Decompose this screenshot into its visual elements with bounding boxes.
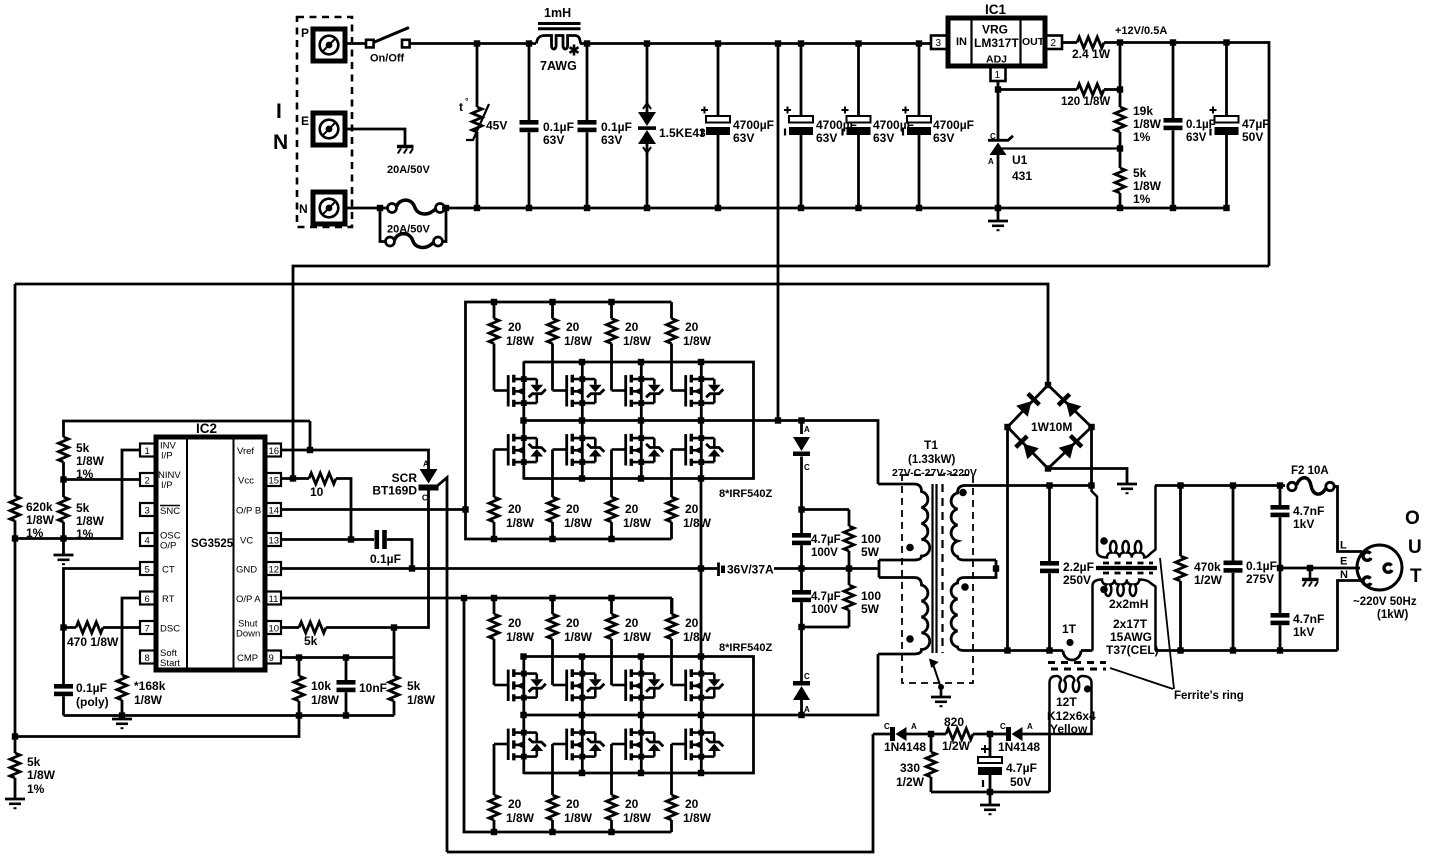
- pin 6 RT: [140, 592, 175, 606]
- phase dot primary bottom: [906, 635, 914, 643]
- fuse F2 10A: [1288, 478, 1334, 494]
- svg-text:1T: 1T: [1062, 622, 1077, 636]
- wire lower return to left rail: [15, 716, 299, 737]
- bridge frame: [1008, 385, 1092, 469]
- svg-text:F2 10A: F2 10A: [1291, 465, 1329, 477]
- svg-text:9: 9: [269, 653, 274, 664]
- input connector dashed box: [297, 17, 352, 227]
- svg-text:20: 20: [685, 502, 699, 516]
- svg-text:8*IRF540Z: 8*IRF540Z: [719, 488, 772, 500]
- bottom rail of input filter: [446, 207, 1227, 210]
- svg-text:431: 431: [1012, 169, 1032, 183]
- resistor 100 5W (2): [848, 569, 851, 586]
- node NINV divider: [60, 476, 66, 482]
- svg-text:1/8W: 1/8W: [407, 693, 436, 707]
- svg-text:3: 3: [936, 38, 942, 49]
- wire top gate bus: [466, 302, 672, 510]
- svg-text:RT: RT: [162, 594, 175, 605]
- node +36V riser top: [775, 40, 781, 46]
- resistor 20 1/8W g11: [607, 598, 652, 685]
- node gate bus2 c1: [491, 536, 497, 542]
- pin 3 box: [931, 36, 947, 50]
- nodes middle bus: [520, 712, 526, 718]
- svg-text:T1: T1: [924, 438, 938, 452]
- svg-text:63V: 63V: [733, 131, 754, 145]
- fuse F1b bypass wires: [380, 208, 446, 242]
- svg-text:6: 6: [145, 594, 150, 605]
- svg-text:CT: CT: [162, 565, 175, 576]
- svg-text:BT169D: BT169D: [372, 484, 417, 498]
- svg-text:0.1µF: 0.1µF: [601, 120, 632, 134]
- wire ground bus under IC2: [64, 714, 395, 717]
- svg-text:CMP: CMP: [237, 653, 258, 664]
- pin 9 CMP: [237, 651, 281, 665]
- pin 3 SNC: [140, 503, 180, 517]
- svg-text:4.7nF: 4.7nF: [1293, 612, 1324, 626]
- wire O/P A gate bus corner: [671, 598, 674, 614]
- svg-text:O: O: [1405, 508, 1420, 529]
- svg-text:C: C: [804, 463, 810, 472]
- ground below 5k: [62, 539, 65, 556]
- resistor 20 1/8W g14: [548, 744, 593, 832]
- svg-text:330: 330: [900, 761, 920, 775]
- svg-text:VRG: VRG: [982, 23, 1008, 37]
- svg-text:1/2W: 1/2W: [1194, 573, 1223, 587]
- node TVS top: [644, 40, 650, 46]
- ground bottom left: [5, 799, 25, 808]
- capacitor C2 0.1uF 63V: [586, 44, 589, 121]
- svg-text:63V: 63V: [543, 133, 564, 147]
- svg-text:1/8W: 1/8W: [76, 514, 105, 528]
- svg-text:1: 1: [145, 446, 150, 457]
- resistor 20 1/8W g16: [667, 744, 712, 832]
- svg-text:O/P: O/P: [160, 541, 176, 552]
- choke bottom winding: [1093, 580, 1156, 651]
- wire +12V feed (line A): [293, 266, 1269, 479]
- resistor 2.4 1W: [1077, 37, 1104, 48]
- wire bridge left to AC neutral: [1006, 427, 1009, 651]
- resistor 100 5W (1): [848, 510, 851, 527]
- svg-text:GND: GND: [236, 565, 257, 576]
- transistor Q14: [553, 715, 605, 774]
- node gate bus c3: [608, 595, 614, 601]
- node gate bus2 c3: [608, 536, 614, 542]
- svg-text:20: 20: [625, 502, 639, 516]
- svg-text:5k: 5k: [76, 441, 90, 455]
- svg-text:100V: 100V: [811, 547, 838, 559]
- svg-text:N: N: [1340, 569, 1348, 581]
- T1 secondary winding top: [951, 486, 1091, 561]
- wire drain bus top: [524, 362, 754, 479]
- svg-text:Vref: Vref: [237, 446, 254, 457]
- svg-text:63V: 63V: [933, 131, 954, 145]
- choke top winding: [1092, 486, 1156, 558]
- SCR BT169D: [420, 469, 438, 484]
- svg-text:P: P: [301, 26, 309, 40]
- svg-text:20: 20: [508, 320, 522, 334]
- transistor Q1: [494, 362, 546, 421]
- svg-text:1/8W: 1/8W: [564, 516, 593, 530]
- ground below U1: [997, 208, 1000, 221]
- resistor 20 1/8W g7: [607, 450, 652, 540]
- svg-text:Start: Start: [160, 658, 180, 669]
- svg-text:4.7nF: 4.7nF: [1293, 504, 1324, 518]
- svg-text:DSC: DSC: [160, 624, 180, 635]
- svg-text:2x17T: 2x17T: [1113, 617, 1148, 631]
- node VC cap to GND: [409, 565, 415, 571]
- svg-text:C: C: [990, 132, 996, 141]
- capacitor C6 4700uF 63V: [918, 44, 921, 117]
- svg-text:2: 2: [1051, 38, 1057, 49]
- svg-text:5k: 5k: [27, 755, 41, 769]
- capacitor C4 4700uF 63V: [800, 44, 803, 117]
- svg-text:(1.33kW): (1.33kW): [908, 454, 955, 466]
- svg-text:20: 20: [625, 797, 639, 811]
- pin 16 Vref: [237, 444, 281, 458]
- node shutdown junction: [391, 624, 397, 630]
- node gate bus c1: [491, 299, 497, 305]
- wire screen to ground: [940, 687, 943, 697]
- svg-text:5: 5: [145, 565, 150, 576]
- svg-text:20: 20: [625, 616, 639, 630]
- capacitor 0.1uF (VC): [375, 530, 380, 549]
- wire RC2 bottom: [802, 626, 850, 629]
- node 4.7nF top: [1277, 482, 1283, 488]
- phase dot choke top: [1100, 537, 1108, 545]
- svg-text:1/8W: 1/8W: [564, 630, 593, 644]
- svg-text:1/8W: 1/8W: [311, 693, 340, 707]
- terminal P: [313, 29, 345, 61]
- ground aux: [989, 792, 992, 805]
- resistor 120 1/8W: [1077, 84, 1104, 95]
- node AC line choke tap: [1088, 482, 1094, 488]
- capacitor 10nF: [345, 658, 348, 681]
- node gate bus2 c3: [608, 829, 614, 835]
- svg-text:4700µF: 4700µF: [933, 118, 974, 132]
- svg-text:4.7µF: 4.7µF: [811, 591, 841, 603]
- resistor 20 1/8W g15: [607, 744, 652, 832]
- svg-text:OUT: OUT: [1022, 36, 1045, 48]
- svg-text:50V: 50V: [1242, 130, 1263, 144]
- svg-text:C: C: [804, 672, 810, 681]
- svg-text:*168k: *168k: [134, 679, 166, 693]
- bridge diode top-right: [1057, 393, 1082, 418]
- IC2 box: [156, 421, 265, 670]
- svg-text:ADJ: ADJ: [986, 54, 1007, 66]
- node snubber bottom: [798, 712, 804, 718]
- phase dot choke bottom: [1100, 586, 1108, 594]
- svg-text:IC1: IC1: [985, 2, 1007, 17]
- svg-text:20: 20: [566, 502, 580, 516]
- IC1 box: [948, 2, 1045, 66]
- wire Vref to SCR anode: [310, 450, 429, 469]
- pin 1 box: [991, 67, 1006, 81]
- wire RC1 top: [802, 508, 850, 511]
- svg-text:1/2W: 1/2W: [896, 775, 925, 789]
- svg-text:12T: 12T: [1056, 695, 1077, 709]
- node left rail bottom: [12, 733, 18, 739]
- wire left gate vertical: [464, 598, 672, 832]
- ground bridge: [1117, 484, 1137, 493]
- node ADJ: [995, 86, 1001, 92]
- svg-text:20A/50V: 20A/50V: [387, 224, 430, 236]
- pin 15 Vcc: [238, 473, 281, 487]
- node E mid: [1277, 565, 1283, 571]
- svg-text:SG3525: SG3525: [191, 538, 234, 550]
- wire to pin 2: [64, 478, 141, 481]
- fuse F1 20A/50V: [388, 200, 445, 214]
- svg-text:°: °: [465, 96, 469, 106]
- node 330 top: [928, 731, 934, 737]
- fuse F1b 20A/50V: [386, 234, 443, 248]
- wire fuse to L: [1334, 487, 1362, 552]
- node AC neutral bridge: [1004, 647, 1010, 653]
- node O/P A to bank: [461, 595, 467, 601]
- resistor 20 1/8W g9: [489, 598, 535, 685]
- wire bridge bottom to ground: [1048, 469, 1127, 485]
- capacitor 0.1uF poly: [62, 628, 65, 685]
- node gate bus2 c2: [549, 536, 555, 542]
- T1 core: [933, 484, 937, 653]
- wire pin9 CMP: [281, 656, 394, 659]
- svg-text:1.5KE43: 1.5KE43: [659, 126, 706, 140]
- svg-text:1mH: 1mH: [544, 6, 571, 20]
- resistor 5k 1/8W 1% (lower): [62, 480, 65, 498]
- node 10k bottom riser: [296, 712, 302, 718]
- svg-text:K12x6x4: K12x6x4: [1047, 709, 1096, 723]
- svg-text:IC2: IC2: [196, 421, 217, 436]
- svg-text:63V: 63V: [873, 131, 894, 145]
- node bridge bottom: [1045, 465, 1051, 471]
- node Vref: [307, 447, 313, 453]
- pin 5 CT: [140, 562, 175, 576]
- resistor 20 1/8W g12: [667, 598, 712, 685]
- wire middle bus: [524, 421, 879, 485]
- svg-text:1/8W: 1/8W: [683, 630, 712, 644]
- capacitor C5 4700uF 63V: [857, 44, 860, 117]
- wire neutral rail after choke: [1155, 649, 1338, 652]
- node fuse left: [377, 205, 383, 211]
- nodes drain bus: [579, 359, 585, 365]
- svg-text:4: 4: [145, 536, 150, 547]
- wire pin12 GND long to battery: [281, 567, 717, 570]
- resistor 330 1/2W: [930, 734, 933, 752]
- bridge diode top-left: [1016, 392, 1041, 417]
- pin 12 GND: [236, 562, 281, 576]
- svg-text:IN: IN: [956, 36, 967, 48]
- pin 4 OSC O/P: [140, 531, 181, 552]
- svg-text:0.1µF: 0.1µF: [1246, 559, 1277, 573]
- node 470k top: [1177, 482, 1183, 488]
- svg-text:1%: 1%: [27, 782, 45, 796]
- capacitor 0.1uF 63V (12V rail): [1172, 43, 1175, 119]
- svg-text:7: 7: [145, 624, 150, 635]
- wire fuse1 to rail: [442, 207, 446, 210]
- svg-text:1/8W: 1/8W: [506, 516, 535, 530]
- resistor 20 1/8W g4: [667, 302, 712, 391]
- svg-text:2: 2: [145, 476, 150, 487]
- resistor 20 1/8W g10: [548, 598, 593, 685]
- svg-text:20: 20: [685, 320, 699, 334]
- battery 36V/37A: [717, 563, 720, 577]
- node C4 top: [798, 40, 804, 46]
- diode D1 (snubber top): [800, 421, 803, 435]
- transistor Q2: [553, 362, 605, 421]
- svg-text:7AWG: 7AWG: [540, 59, 577, 73]
- wire INV feedback rail: [15, 450, 140, 539]
- svg-text:3: 3: [145, 506, 150, 517]
- node gate bus c2: [549, 299, 555, 305]
- svg-text:A: A: [911, 722, 917, 731]
- svg-text:47µF: 47µF: [1242, 117, 1270, 131]
- nodes drain bus: [520, 653, 526, 659]
- resistor *168k 1/8W: [117, 675, 127, 700]
- svg-text:20: 20: [508, 797, 522, 811]
- node gate bus c2: [549, 595, 555, 601]
- svg-text:1/8W: 1/8W: [683, 811, 712, 825]
- node AC line 2.2uF: [1046, 482, 1052, 488]
- terminal E: [313, 113, 345, 145]
- TVS 1.5KE43: [646, 44, 649, 113]
- node CMP 10nF: [343, 654, 349, 660]
- node CT/DSC: [60, 624, 66, 630]
- svg-text:20A/50V: 20A/50V: [387, 164, 430, 176]
- resistor 5k (shutdown): [299, 622, 326, 633]
- transistor Q8: [672, 421, 724, 480]
- phase dot 12T: [1084, 685, 1091, 692]
- svg-text:VC: VC: [240, 536, 253, 547]
- svg-text:LM317T: LM317T: [974, 36, 1019, 50]
- svg-text:(1kW): (1kW): [1377, 609, 1408, 621]
- wire inductor to IC1: [580, 42, 931, 45]
- resistor 20 1/8W g8: [667, 450, 712, 540]
- transistor Q11: [612, 656, 664, 715]
- svg-text:4.7µF: 4.7µF: [811, 534, 841, 546]
- svg-text:A: A: [1027, 722, 1033, 731]
- wire ADJ to R120: [998, 88, 1077, 91]
- svg-text:5k: 5k: [1133, 166, 1147, 180]
- output socket: [1357, 545, 1402, 590]
- wire pin15 Vcc: [281, 477, 309, 480]
- pin 1 INV I/P: [140, 441, 177, 462]
- choke core: [1096, 566, 1157, 570]
- wire OUT to R 2.4: [1062, 41, 1077, 44]
- svg-text:1/8W: 1/8W: [623, 516, 652, 530]
- svg-text:1/8W: 1/8W: [506, 811, 535, 825]
- svg-text:1/2W: 1/2W: [942, 739, 971, 753]
- node 2.2uF bottom: [1046, 647, 1052, 653]
- svg-text:Yellow: Yellow: [1050, 722, 1088, 736]
- svg-text:2.2µF: 2.2µF: [1063, 560, 1094, 574]
- svg-text:A: A: [804, 425, 810, 434]
- svg-text:36V/37A: 36V/37A: [727, 563, 774, 577]
- node gate bus2 c2: [549, 829, 555, 835]
- transistor Q7: [612, 421, 664, 480]
- svg-text:~220V 50Hz: ~220V 50Hz: [1353, 596, 1417, 608]
- node divider mid: [1117, 145, 1123, 151]
- bridge diode bottom-left: [1014, 435, 1039, 460]
- svg-text:A: A: [423, 460, 429, 469]
- svg-text:1/8W: 1/8W: [27, 768, 56, 782]
- svg-text:t: t: [459, 100, 463, 114]
- wire middle bus bottom bank: [524, 654, 879, 715]
- ferrite ring dashes: [1048, 661, 1106, 664]
- node thermistor bottom: [474, 205, 480, 211]
- svg-text:4700µF: 4700µF: [733, 118, 774, 132]
- node C2 top: [584, 40, 590, 46]
- pin 7 DSC: [140, 621, 180, 635]
- thermistor 45V: [476, 44, 479, 108]
- node RC1 bottom a: [798, 565, 804, 571]
- svg-text:1kV: 1kV: [1293, 625, 1314, 639]
- bridge diode bottom-right: [1059, 434, 1084, 459]
- pin 11 O/P A: [236, 592, 281, 606]
- wire +36V riser (to H-bridge mid bus): [777, 44, 780, 421]
- svg-text:1%: 1%: [26, 526, 44, 540]
- node 5k bottom: [60, 535, 66, 541]
- svg-text:E: E: [1340, 556, 1347, 568]
- node bridge top: [1045, 382, 1051, 388]
- svg-text:10nF: 10nF: [359, 681, 387, 695]
- svg-text:5k: 5k: [304, 634, 318, 648]
- node CMP 10k: [296, 654, 302, 660]
- svg-text:1/8W: 1/8W: [1133, 117, 1162, 131]
- node 12V b: [1170, 39, 1176, 45]
- svg-text:5k: 5k: [76, 501, 90, 515]
- wire far-left vertical: [14, 284, 17, 753]
- svg-text:Down: Down: [236, 629, 260, 640]
- node gate bus c1: [491, 595, 497, 601]
- svg-text:1/8W: 1/8W: [26, 513, 55, 527]
- svg-text:C: C: [1000, 722, 1006, 731]
- T1 primary winding bottom: [878, 578, 930, 655]
- svg-text:10: 10: [269, 624, 280, 635]
- svg-text:SNC: SNC: [160, 506, 180, 517]
- node RC2 bottom: [798, 624, 804, 630]
- svg-text:1N4148: 1N4148: [884, 740, 926, 754]
- wire switch to inductor: [410, 42, 536, 45]
- svg-text:1/8W: 1/8W: [683, 516, 712, 530]
- svg-text:5W: 5W: [861, 602, 880, 616]
- callout line from 12T dashes: [1110, 668, 1173, 689]
- T1 secondary winding bottom: [951, 578, 1063, 651]
- node column at GND line: [698, 565, 704, 571]
- node 4.7nF bottom: [1277, 647, 1283, 653]
- wire shutdown to CMP chain: [393, 628, 396, 677]
- svg-text:16: 16: [269, 446, 280, 457]
- resistor 20 1/8W g6: [548, 450, 593, 540]
- svg-text:470 1/8W: 470 1/8W: [67, 635, 119, 649]
- node 12V c: [1223, 39, 1229, 45]
- svg-text:45V: 45V: [486, 119, 507, 133]
- pin 13 VC: [240, 533, 281, 547]
- wire E to ground: [345, 129, 405, 146]
- pin 10 Shut Down: [236, 619, 281, 640]
- wire 12T left lead down: [1048, 734, 1051, 792]
- pin 14 O/P B: [236, 503, 281, 517]
- resistor 470k 1/2W: [1179, 486, 1182, 557]
- capacitor 4.7nF 1kV (top): [1279, 486, 1282, 506]
- svg-text:1%: 1%: [1133, 192, 1151, 206]
- node C6 top: [916, 40, 922, 46]
- svg-text:1/8W: 1/8W: [506, 334, 535, 348]
- node RC1 bottom b: [846, 565, 852, 571]
- resistor 5k 1/8W (CMP): [389, 676, 399, 701]
- diode 1N4148 (left): [873, 733, 890, 736]
- svg-text:1/8W: 1/8W: [564, 811, 593, 825]
- node bridge right: [1088, 424, 1094, 430]
- svg-text:1/8W: 1/8W: [683, 334, 712, 348]
